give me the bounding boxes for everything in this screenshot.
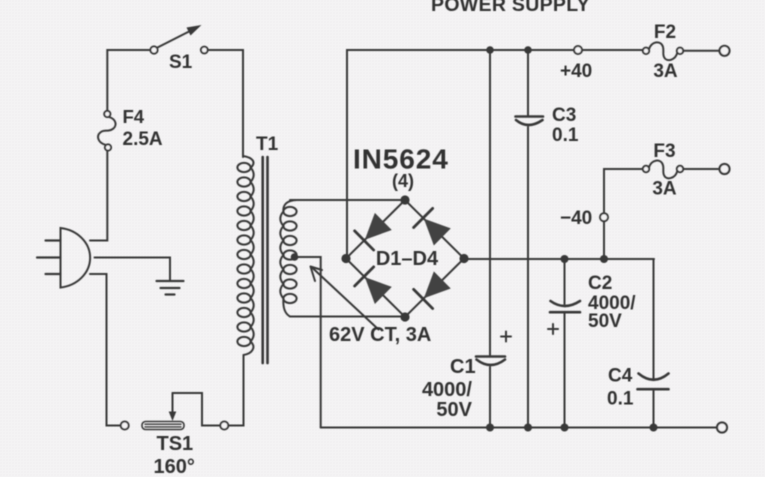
svg-text:50V: 50V [588, 311, 622, 332]
wire F2 to terminal [683, 50, 719, 52]
wire switch to transformer primary top [208, 50, 243, 157]
node bridge bottom [400, 312, 409, 321]
diode D3 [355, 267, 393, 305]
capacitor C4 [638, 374, 669, 390]
capacitor C1 line [489, 50, 491, 428]
terminal bottom output [717, 423, 727, 433]
svg-text:0.1: 0.1 [607, 389, 634, 410]
pointer arrow 62V CT [311, 267, 379, 330]
svg-text:TS1: TS1 [157, 433, 194, 455]
thermal switch TS1 [121, 393, 195, 477]
fuse F2 [643, 22, 683, 82]
node bridge left [341, 254, 350, 263]
transformer T1 primary coil [237, 156, 253, 355]
capacitor C1 [476, 357, 505, 366]
ground [157, 281, 184, 295]
C1 plus [501, 332, 511, 342]
svg-text:IN5624: IN5624 [353, 144, 449, 175]
wire terminal to transformer primary bottom [228, 355, 243, 426]
svg-text:F4: F4 [123, 106, 145, 127]
node center tap [291, 253, 299, 261]
capacitor C3 [516, 117, 544, 126]
diode D2 [414, 208, 452, 246]
capacitor C4 line [653, 259, 655, 428]
capacitor C3 line [527, 50, 529, 428]
wire bottom rail [321, 427, 716, 429]
bridge rectifier diamond [346, 200, 464, 317]
transformer T1 secondary coil [280, 200, 297, 317]
svg-text:3A: 3A [653, 61, 678, 82]
node bottom rail C1 [486, 424, 494, 432]
wire plug middle prong to ground [95, 258, 171, 282]
capacitor C2 [550, 301, 580, 312]
svg-text:50V: 50V [436, 399, 472, 421]
terminal +40 [574, 46, 582, 54]
node top rail C1 [486, 46, 494, 54]
node bottom rail C3 [524, 424, 532, 432]
node top rail C3 [524, 46, 532, 54]
AC plug [37, 228, 90, 288]
svg-text:T1: T1 [256, 134, 279, 155]
terminal circle right of TS1 [220, 422, 228, 430]
svg-text:2.5A: 2.5A [123, 129, 163, 150]
svg-text:(4): (4) [392, 171, 414, 191]
fuse F3 [643, 141, 683, 200]
svg-text:POWER SUPPLY: POWER SUPPLY [431, 0, 590, 16]
node -40 junction [600, 255, 608, 263]
svg-text:62V CT, 3A: 62V CT, 3A [329, 324, 431, 346]
capacitor C2 line [564, 259, 566, 428]
svg-text:0.1: 0.1 [552, 125, 579, 146]
svg-text:+40: +40 [560, 61, 592, 82]
terminal -40 [600, 213, 608, 221]
svg-text:−40: −40 [560, 208, 592, 229]
svg-text:C2: C2 [588, 273, 612, 294]
wire plug bottom prong down to TS1 [90, 274, 121, 426]
svg-text:C1: C1 [450, 356, 476, 378]
node bottom rail C4 [650, 424, 658, 432]
node bridge top [400, 195, 409, 204]
node C2 junction [561, 255, 569, 263]
svg-text:F3: F3 [653, 141, 675, 162]
wire TS1 wiper to transformer primary bottom [173, 393, 221, 426]
wire bridge right vertex to -40 and C4 [464, 258, 654, 260]
C2 plus [548, 324, 558, 334]
wire top-left horizontal to switch [107, 50, 150, 110]
svg-text:D1–D4: D1–D4 [376, 248, 439, 270]
wire F3 to terminal [683, 168, 719, 170]
diode D1 [355, 212, 393, 250]
wire secondary bottom to bridge bottom vertex [290, 316, 405, 318]
terminal F3 output [720, 164, 730, 174]
wire +40 to fuse F2 [582, 49, 643, 51]
node bridge right [459, 254, 468, 263]
terminal F2 output [720, 46, 730, 56]
wire top rail [347, 50, 574, 259]
svg-text:4000/: 4000/ [422, 379, 472, 401]
svg-text:S1: S1 [169, 52, 193, 73]
svg-text:C4: C4 [608, 366, 633, 387]
transformer T1 core [263, 157, 268, 363]
node bottom rail C2 [561, 424, 569, 432]
wire secondary top to bridge top vertex [290, 199, 405, 201]
fuse F4 [98, 106, 163, 151]
wire center tap to bottom rail [295, 257, 321, 428]
svg-text:160°: 160° [154, 456, 195, 477]
diode D4 [414, 270, 452, 308]
svg-text:C3: C3 [552, 105, 576, 126]
wire -40 up to fuse F3 [604, 169, 643, 255]
svg-text:F2: F2 [654, 22, 676, 43]
switch S1 [150, 25, 207, 73]
wire fuse F4 to plug top prong [90, 151, 107, 241]
svg-text:3A: 3A [652, 179, 677, 200]
